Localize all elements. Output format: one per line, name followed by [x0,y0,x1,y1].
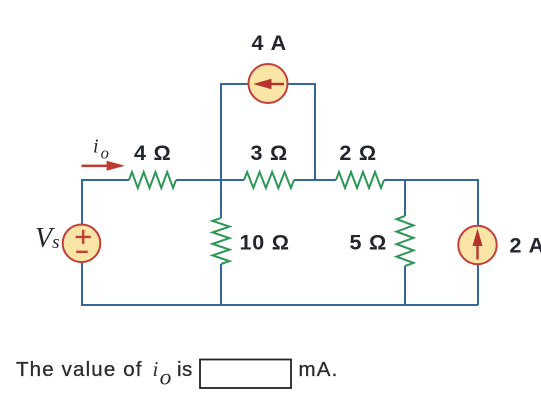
wire top main segment C (3ohm to 2ohm) [294,179,336,181]
svg-text:is: is [177,358,193,381]
wire 10-ohm branch lower [220,264,222,305]
wire left rail top (corner to Vs) [81,180,83,225]
svg-text:i: i [153,357,159,381]
wire top main segment D (2ohm to top-right corner) [384,179,478,181]
svg-text:i: i [93,135,99,157]
current source 4A arrow [253,79,284,89]
resistor R 10-ohm [213,218,230,264]
current source 2A arrow [473,229,483,260]
svg-text:o: o [160,364,172,390]
svg-text:Vs: Vs [35,223,60,254]
wire right rail bottom (2A source to bottom-right corner) [477,264,479,305]
svg-text:5 Ω: 5 Ω [350,230,388,254]
svg-text:The value of: The value of [16,358,143,381]
wire left rail bottom (Vs to bottom-left corner) [81,262,83,305]
svg-text:o: o [101,143,109,162]
wire 5-ohm branch lower [404,266,406,305]
resistor R 2-ohm [336,172,384,188]
wire bottom rail [81,304,478,306]
answer input box [200,360,291,389]
wire 4A loop left leg [221,84,249,181]
current source 4A circle [249,64,288,103]
wire top main segment A (left corner to 4ohm) [81,179,129,181]
wire right rail top (corner to 2A source) [477,179,479,226]
svg-text:mA.: mA. [299,358,339,381]
current source 2A circle [458,226,496,264]
wire 4A loop right leg [288,84,316,181]
wire top main segment B (4ohm to 3ohm) [176,179,244,181]
svg-text:3 Ω: 3 Ω [251,141,289,165]
voltage source Vs minus sign [76,251,88,253]
resistor R 5-ohm [397,216,414,266]
svg-text:4 Ω: 4 Ω [134,141,172,165]
svg-text:2 A: 2 A [510,233,541,257]
voltage source Vs circle [63,225,101,263]
wire 5-ohm branch upper [404,180,406,216]
voltage source Vs plus sign [76,230,91,244]
svg-text:4 A: 4 A [252,31,288,55]
wire 10-ohm branch upper [220,180,222,218]
current io arrow [82,161,126,171]
resistor R 4-ohm [129,172,176,188]
svg-text:10 Ω: 10 Ω [240,230,290,254]
svg-text:2 Ω: 2 Ω [339,141,377,165]
resistor R 3-ohm [244,172,294,188]
